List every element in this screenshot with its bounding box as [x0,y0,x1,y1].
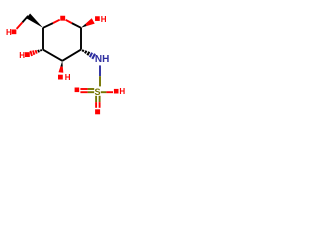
O right square [114,89,119,94]
S=O left upper bar red [80,88,87,90]
bond N-S blue half [99,65,101,76]
bond N-S olive half [99,76,101,86]
hashed wedge C4-O4 mark [40,49,43,51]
S=O left lower bar olive [88,91,95,93]
svg-text:H: H [19,51,25,60]
S=O bottom right bar red [99,102,101,108]
bold wedge C1-O1 [81,24,87,28]
O6 square [12,29,17,34]
svg-text:NH: NH [95,54,109,65]
ring bond C1-C2 [80,28,82,50]
bold wedge C3-O3 [60,61,62,67]
bond S-O right red half [106,91,113,93]
ring oxygen O5 square [60,16,65,21]
ring bond C4-C5 [42,28,44,50]
O1 square [95,16,100,21]
S=O bottom right bar olive [99,96,101,102]
svg-text:H: H [65,73,71,82]
svg-text:H: H [101,15,107,24]
ring bond O5-C1 red half [66,20,72,23]
O left square [75,88,80,93]
O3 square [58,75,63,80]
O4 square [25,52,30,57]
S=O bottom left bar olive [95,96,97,102]
bond C6-O6 black half [22,16,28,23]
svg-text:H: H [119,87,125,96]
hashed wedge C2-N mark [83,50,84,52]
S=O bottom left bar red [95,102,97,108]
ring bond O5-C5 red half [53,20,60,23]
O bottom square [95,109,100,114]
ring bond C2-C3 [62,50,81,61]
ring bond C3-C4 [43,50,62,61]
bond S-O right olive half [101,91,107,93]
S=O left upper bar olive [88,88,95,90]
bold wedge C5-C6 [26,14,43,28]
svg-text:H: H [6,28,12,37]
ring bond O5-C5 black half [43,23,53,28]
S=O left lower bar red [80,91,87,93]
svg-text:S: S [95,87,101,97]
ring bond O5-C1 black half [72,23,81,28]
bond C6-O6 red half [17,22,23,29]
